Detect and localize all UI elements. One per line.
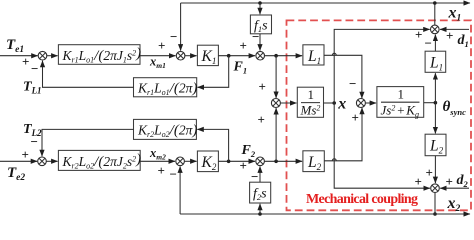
svg-text:−: − — [252, 29, 259, 44]
svg-text:+: + — [426, 165, 433, 180]
node on bottom rail at x2 — [433, 212, 437, 216]
svg-text:+: + — [259, 79, 266, 94]
bottom rail: x2 feedback line — [180, 213, 470, 215]
svg-text:−: − — [170, 167, 177, 182]
wire: K2 to junction F with node — [218, 160, 255, 162]
block K2 — [197, 151, 218, 172]
wire: node down into junction M (plus) — [275, 56, 277, 98]
dashed red box: mechanical coupling region — [287, 20, 472, 210]
node after junction C — [274, 54, 278, 58]
svg-text:+: + — [258, 112, 265, 127]
wire: node up into junction M bottom (plus) — [275, 108, 277, 161]
block B2: Kr2Lo2/(2pi J2 s^2) — [58, 150, 141, 170]
svg-text:Mechanical coupling: Mechanical coupling — [306, 192, 418, 207]
wire: B1 to junction B, label xm1 — [140, 55, 176, 57]
summing junction x1 — [431, 25, 440, 34]
block L1 right — [425, 51, 446, 72]
block FB2: Kr2Lo2/(2pi) — [134, 119, 198, 139]
wire: K1 to junction C with node — [218, 55, 255, 57]
wire: f2s output into junction F bottom — [259, 166, 261, 182]
svg-text:+: + — [22, 54, 29, 69]
svg-text:Js2 + Kg: Js2 + Kg — [381, 103, 419, 120]
hop where L1 output crosses x riser — [332, 53, 336, 55]
wire: L1 right output into junction x1 bottom (minus) — [434, 35, 436, 52]
wire: junction x2 output down to bottom rail — [434, 193, 436, 215]
block 1/Ms2 — [297, 87, 323, 118]
summing junction N — [356, 99, 365, 108]
wire: theta node up into L1 right — [434, 73, 436, 103]
hop where L2 output crosses x dropper — [332, 159, 336, 161]
wire: bottom rail up into junction E (minus) — [179, 166, 181, 214]
summing junction D — [38, 157, 47, 166]
wire: rail down into f1s — [259, 3, 261, 14]
block 1/(Js2+Kg) — [377, 87, 424, 120]
svg-text:+: + — [352, 110, 359, 125]
top rail: x1 feedback line — [181, 2, 470, 4]
wire: junction C to block L1 left, node for coupling — [265, 55, 303, 57]
wire: FB2 output to junction D top (minus) — [42, 129, 134, 156]
block L2 right — [425, 134, 446, 156]
wire: d2 input into junction x2 — [440, 187, 469, 189]
svg-text:+: + — [240, 158, 247, 173]
svg-text:−: − — [349, 76, 356, 91]
block FB1: Kr1Lo1/(2pi) — [134, 78, 198, 97]
block B1: Kr1Lo1/(2pi J1 s^2) — [58, 45, 141, 65]
svg-text:x: x — [337, 95, 346, 112]
svg-text:+: + — [415, 27, 422, 42]
svg-text:+: + — [240, 38, 247, 53]
svg-text:−: − — [31, 61, 38, 76]
wire: theta node down into L2 right — [434, 103, 436, 134]
svg-text:+: + — [446, 174, 453, 189]
wire: FB1 output to junction A bottom (minus) — [43, 61, 134, 88]
svg-text:−: − — [251, 169, 258, 184]
wire: junction x1 output up to top rail — [434, 3, 436, 25]
block L2 left — [303, 151, 324, 172]
wire: B2 to junction E, label xm2 — [140, 160, 175, 162]
svg-text:+: + — [415, 174, 422, 189]
node after K2 — [227, 160, 231, 164]
node x — [332, 101, 336, 105]
summing junction E — [176, 157, 185, 166]
node on rail at x1 — [433, 1, 437, 5]
wire: feedback drop from node to FB1 — [198, 56, 229, 88]
wire: junction B to K1 — [185, 55, 197, 57]
wire: x riser up, over to junction x1 (plus left) — [334, 29, 430, 103]
wire: d1 input into junction x1 — [440, 28, 469, 30]
wire: junction M to 1/Ms2 — [280, 102, 296, 104]
wire: junction D to block B2 — [46, 160, 57, 162]
node theta_sync — [434, 101, 438, 105]
wire: rail up into f2s — [259, 204, 261, 214]
svg-text:+: + — [22, 147, 29, 162]
wire: L2 output over x-dropper to junction N bottom (plus) — [324, 108, 362, 161]
svg-text:+: + — [158, 163, 165, 178]
node on bottom rail feeding f2s — [258, 212, 262, 216]
wire: x dropper down, over to junction x2 (plus left) — [334, 103, 430, 188]
wire: L1 output over x-line to junction N top (minus) — [324, 55, 362, 98]
wire: top rail down into junction B (minus) — [180, 3, 182, 51]
node on top rail feeding f1s — [258, 1, 262, 5]
svg-text:−: − — [170, 29, 177, 44]
wire: feedback riser from node to FB2 — [197, 129, 228, 161]
svg-text:−: − — [425, 36, 432, 51]
summing junction A — [38, 51, 47, 60]
wire: junction E to K2 — [184, 160, 196, 162]
wire: junction A to block B1 — [47, 55, 58, 57]
summing junction M — [271, 99, 280, 108]
wire: f1s output into junction C top — [259, 34, 261, 51]
wire: Te2 input into junction D — [0, 160, 37, 162]
summing junction x2 — [431, 184, 440, 193]
block f2s — [250, 182, 271, 203]
block f1s — [250, 15, 271, 34]
summing junction F — [256, 157, 265, 166]
summing junction C — [256, 51, 265, 60]
wire: block output to theta node — [424, 102, 436, 104]
svg-text:+: + — [446, 28, 453, 43]
wire: L2 right output into junction x2 top (plus) — [434, 156, 436, 183]
wire: Te1 input into junction A — [0, 55, 38, 57]
block L1 left — [303, 45, 324, 66]
wire: 1/Ms2 output to x node — [324, 102, 335, 104]
node after junction F — [274, 160, 278, 164]
summing junction B — [176, 51, 185, 60]
svg-text:1: 1 — [398, 87, 405, 102]
svg-text:1: 1 — [308, 87, 315, 102]
block K1 — [197, 45, 218, 66]
wire: junction F to block L2 left, node for coupling — [264, 160, 302, 162]
wire: junction N to 1/(Js2+Kg) — [365, 102, 376, 104]
node after K1 — [227, 54, 231, 58]
svg-text:+: + — [158, 38, 165, 53]
